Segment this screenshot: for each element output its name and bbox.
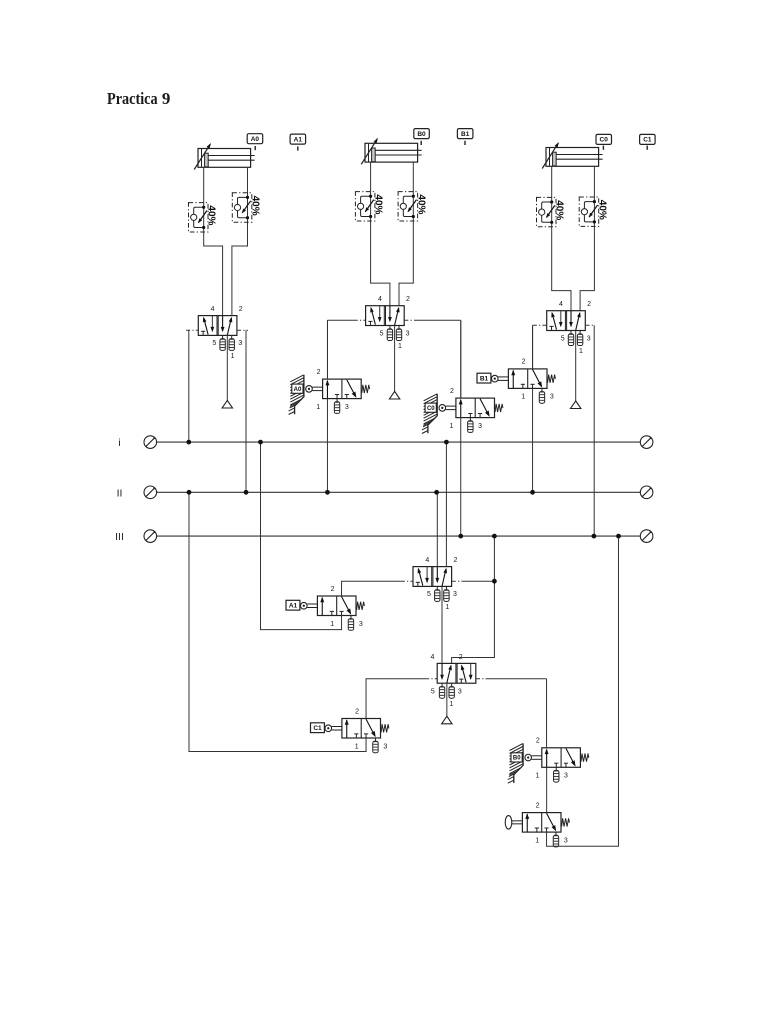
junction line II / V1 pilot (244, 490, 249, 495)
wire V2 port 1 to air supply (394, 326, 396, 392)
flow control valve C-left 40% (537, 197, 565, 226)
wire V4 port 4 to line II (436, 492, 438, 566)
wire valve C0 port 2 up to V2 pilot (460, 320, 462, 398)
pilot line V5 left (425, 678, 437, 680)
cylinder A (194, 143, 254, 170)
wire line III / V4 pilot / V5 port 2 (452, 536, 495, 663)
bus line II (117, 487, 641, 499)
marker tick B0 (421, 141, 422, 145)
wire cylinder A rod-end to valve V1 port 2 (232, 167, 248, 315)
bus connector III right (640, 530, 653, 543)
pilot line V5 right (476, 678, 487, 680)
3/2 roller valve A0 (306, 369, 370, 414)
wire valve A0 port 2 up to V2 pilot (326, 320, 328, 379)
cam wall A0 (289, 375, 304, 415)
svg-text:9: 9 (162, 89, 171, 108)
cylinder C (542, 142, 602, 169)
svg-text:40%: 40% (206, 205, 217, 225)
wire V2 left pilot to valve A0 port 2 (327, 320, 329, 379)
svg-text:40%: 40% (554, 200, 565, 220)
svg-text:A1: A1 (294, 136, 303, 143)
wire valve C1 port 2 to V5 left pilot (366, 679, 425, 719)
label C1 (640, 134, 656, 144)
svg-text:C0: C0 (427, 406, 435, 412)
pilot line V4 right (452, 580, 463, 582)
marker tick A1 (297, 146, 298, 150)
wire cylinder A cap-end to valve V1 port 4 (204, 167, 223, 315)
wire V3 right pilot to line III (593, 325, 595, 536)
bus line III (115, 531, 640, 543)
bus connector i left (144, 436, 157, 449)
title "Practica 9" (107, 89, 170, 108)
junction line II / V4 port 4 (434, 490, 439, 495)
marker tick C1 (647, 146, 648, 150)
wire V2 left pilot (328, 319, 354, 321)
wire cylinder C cap-end to valve V3 port 4 (552, 166, 571, 310)
junction line II / valve A0 (325, 490, 330, 495)
label B0 (414, 129, 430, 139)
flow control valve B-right 40% (398, 192, 426, 221)
bus line i (118, 437, 640, 449)
wire valve C0 port 1 to line III (460, 418, 462, 536)
svg-text:C1: C1 (313, 725, 322, 732)
air supply triangle V2 (389, 391, 399, 399)
wire V1 right pilot to line II (245, 330, 247, 492)
svg-text:B1: B1 (461, 131, 470, 138)
3/2 roller valve A1 (301, 586, 365, 631)
wire cylinder B cap-end to valve V2 port 4 (371, 162, 390, 306)
svg-text:40%: 40% (373, 194, 384, 214)
3/2 pushbutton start valve (505, 802, 569, 847)
junction line II / valve B1 (530, 490, 535, 495)
svg-text:i: i (118, 437, 120, 449)
5/2 valve V2 (cylinder B) (366, 296, 410, 350)
junction V4 right pilot (492, 579, 497, 584)
air supply triangle V3 (571, 401, 581, 409)
3/2 roller valve C1 (325, 708, 389, 753)
wire valve A0 port 1 to line II (326, 399, 328, 493)
svg-text:B0: B0 (513, 756, 521, 762)
svg-text:C0: C0 (600, 137, 609, 144)
wire V4 port 1 to V5 port 4 (441, 586, 443, 663)
label A1 (290, 134, 306, 144)
wire V5 port 1 to air supply (446, 683, 448, 716)
label B1 at roller valve (477, 373, 491, 383)
wire V5 right pilot toward valve B0 (487, 678, 547, 680)
label A0 (247, 134, 263, 144)
svg-text:A0: A0 (294, 387, 302, 393)
junction line i / valve A1 (258, 440, 263, 445)
label C1 at roller valve (311, 723, 325, 733)
5/2 cascade valve V5 (431, 654, 476, 708)
wire valve B1 port 2 up to V3 pilot (532, 325, 534, 369)
bus connector II left (144, 486, 157, 499)
pilot line V2 left (354, 319, 366, 321)
svg-text:II: II (117, 487, 123, 499)
marker tick A0 (255, 146, 256, 150)
3/2 roller valve B0 (525, 738, 589, 783)
wire V5 right pilot to valve B0 port 2 (546, 679, 548, 748)
3/2 roller valve B1 (492, 359, 556, 404)
wire valve A1 port 2 to V4 left pilot (342, 581, 401, 596)
wire cylinder C rod-end to valve V3 port 2 (580, 166, 594, 310)
junction line III / valve C0 (458, 534, 463, 539)
junction line III / cascade (492, 534, 497, 539)
pilot line V4 left (401, 580, 413, 582)
3/2 roller valve C0 (439, 388, 503, 433)
bus connector III left (144, 530, 157, 543)
wire V1 left pilot to line i (188, 330, 190, 442)
marker tick C0 (603, 146, 604, 150)
label C0 (596, 134, 612, 144)
label B1 (457, 129, 473, 139)
air supply triangle V1 (222, 400, 232, 408)
flow control valve C-right 40% (579, 197, 607, 226)
pilot line V1 left (186, 329, 198, 331)
wire valve B1 port 1 to line II (532, 388, 534, 492)
junction line III / V3 pilot (592, 534, 597, 539)
pilot line V2 right (404, 319, 416, 321)
junction line III / start valve (616, 534, 621, 539)
cylinder B (361, 138, 421, 165)
wire V3 port 1 to air supply (575, 331, 577, 401)
svg-text:C1: C1 (643, 137, 652, 144)
wire V4 right pilot to junction (463, 580, 494, 582)
pilot line V3 right (585, 324, 594, 326)
flow control valve A-left 40% (189, 203, 217, 232)
flow control valve B-left 40% (355, 192, 383, 221)
bus connector II right (640, 486, 653, 499)
svg-text:B0: B0 (417, 131, 426, 138)
marker tick B1 (464, 141, 465, 145)
wire cylinder B rod-end to valve V2 port 2 (399, 162, 413, 306)
wire V3 left pilot to valve B1 port 2 (532, 325, 534, 369)
junction line i / V1 pilot (186, 440, 191, 445)
wire V1 port 1 to air supply (226, 335, 228, 400)
wire start valve port 1 to line III (547, 536, 619, 846)
wire valve B0 port 1 to start valve port 2 (546, 767, 548, 812)
wire V2 right pilot (416, 319, 461, 321)
cam wall B0 (508, 743, 523, 783)
bus connector i right (640, 436, 653, 449)
5/2 cascade valve V4 (413, 557, 457, 611)
svg-text:40%: 40% (596, 200, 607, 220)
cam wall C0 (422, 394, 437, 434)
pilot line V3 left (533, 324, 547, 326)
svg-text:B1: B1 (480, 376, 489, 383)
svg-text:A1: A1 (289, 603, 298, 610)
svg-text:Practica: Practica (107, 89, 158, 108)
wire valve C1 port 1 to line II (189, 492, 366, 751)
label A1 at roller valve (286, 600, 300, 610)
junction line II / valve C1 (187, 490, 192, 495)
air supply triangle V5 (442, 716, 452, 724)
svg-text:A0: A0 (251, 136, 260, 143)
pilot line V1 right (237, 329, 248, 331)
svg-text:40%: 40% (250, 196, 261, 216)
flow control valve A-right 40% (232, 193, 260, 222)
5/2 valve V1 (cylinder A) (198, 306, 242, 360)
wire V2 right pilot to valve C0 port 2 (460, 320, 462, 398)
junction line i / V4 port 2 (444, 440, 449, 445)
wire V4 port 2 to line i (445, 442, 447, 566)
svg-text:III: III (115, 531, 124, 543)
wire valve A1 port 1 to line i (261, 442, 342, 629)
5/2 valve V3 (cylinder C) (547, 301, 591, 355)
svg-text:40%: 40% (415, 194, 426, 214)
